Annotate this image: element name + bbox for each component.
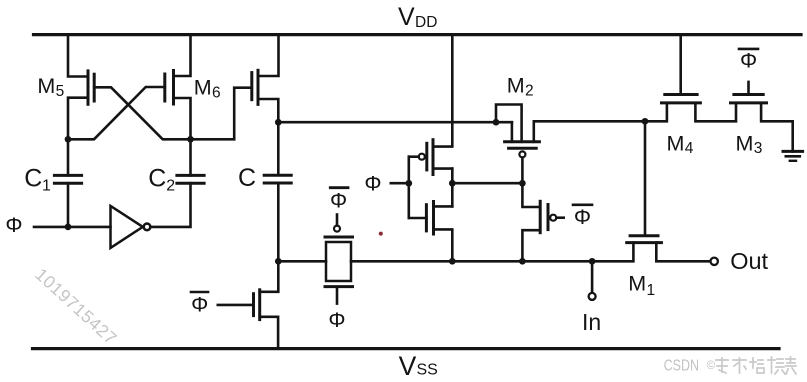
wire M7 gate to node B <box>191 88 252 140</box>
wire M3 gate lead <box>747 82 750 95</box>
label VSS <box>399 351 438 381</box>
transistor M7 (charging device) <box>252 70 258 104</box>
power rail VSS <box>33 347 780 350</box>
svg-text:Φ: Φ <box>328 308 345 332</box>
svg-text:4: 4 <box>685 140 694 157</box>
label Out <box>730 248 768 274</box>
wire VDD to M5 drain <box>68 34 88 76</box>
capacitor C1 <box>54 175 81 183</box>
svg-text:Φ: Φ <box>330 189 347 213</box>
svg-text:1: 1 <box>42 178 51 195</box>
label PHI (TG bottom) <box>328 308 345 332</box>
wire inverter output to C2 <box>150 183 190 227</box>
svg-text:Φ: Φ <box>740 48 757 72</box>
label M1 <box>628 272 655 300</box>
terminal In <box>589 293 596 300</box>
watermark CSDN <box>664 357 716 374</box>
wire M2 gate to node G <box>521 158 524 184</box>
label VDD <box>398 3 437 31</box>
capacitor C <box>264 175 291 183</box>
wire node A to C1 <box>67 139 70 175</box>
svg-text:M: M <box>628 272 646 296</box>
label M2 <box>507 74 534 100</box>
svg-text:CSDN: CSDN <box>664 357 700 374</box>
wire M5 source to node A <box>68 98 88 140</box>
node M2 drain <box>493 119 500 126</box>
wire Q-discharge source to node S2 <box>522 230 540 261</box>
transmission gate TG <box>325 215 353 304</box>
watermark 1019715427 <box>31 264 121 348</box>
svg-text:C: C <box>24 165 42 193</box>
transistor M6 <box>165 71 174 105</box>
wire VDD to M7 drain <box>258 34 279 76</box>
label C2 <box>148 165 175 195</box>
wire M5 gate cross-coupled to node B <box>94 87 190 139</box>
wire bottom bus left (node C-bot to TG) <box>278 260 326 263</box>
svg-text:6: 6 <box>212 84 221 101</box>
label In <box>582 309 601 335</box>
svg-text:M: M <box>736 131 754 155</box>
transistor U2 NMOS <box>426 202 433 235</box>
wire PHI to inverter pair input <box>391 182 409 185</box>
wire M2 body strap <box>496 105 522 142</box>
wire Q-reset source to VSS <box>260 317 278 348</box>
wire M2 source to node D <box>534 121 645 142</box>
node S2 <box>519 258 526 265</box>
label PHI-bar (M3) <box>739 48 758 72</box>
wire C1 to node PHI <box>67 183 70 227</box>
wire U2 NMOS drain <box>434 205 453 208</box>
transistor M5 <box>88 71 94 104</box>
wire U2 NMOS source to node S1 <box>434 229 453 261</box>
wire Q-discharge gate lead <box>556 216 563 219</box>
wire node G to Q-discharge drain <box>522 183 540 207</box>
watermark CJK strokes <box>716 357 796 374</box>
wire U2 NMOS gate lead <box>409 217 427 220</box>
wire U2 PMOS drain <box>433 167 452 170</box>
label C1 <box>24 165 51 195</box>
wire M6 gate cross-coupled to node A <box>68 87 165 139</box>
wire M2 drain lead <box>511 122 514 142</box>
label PHI input <box>5 213 22 237</box>
wire M1 source <box>592 243 633 262</box>
svg-text:Φ: Φ <box>574 205 591 229</box>
svg-text:Φ: Φ <box>364 171 381 195</box>
wire In lead <box>591 261 594 293</box>
svg-text:3: 3 <box>754 140 763 157</box>
label C <box>238 164 256 192</box>
transistor U2 PMOS <box>419 140 433 175</box>
wire M3 source to ground <box>761 103 793 151</box>
wire inverter out to node G <box>452 182 522 185</box>
wire M7 source to node C-top <box>258 99 278 122</box>
wire VDD to M6 drain <box>174 34 191 76</box>
svg-text:2: 2 <box>166 178 175 195</box>
svg-text:M: M <box>194 76 212 100</box>
wire bootstrap top rail (node C-top to M2 drain) <box>278 121 512 124</box>
wire node B to C2 <box>189 139 192 175</box>
svg-text:1: 1 <box>647 282 656 299</box>
label PHI (logic input) <box>364 171 381 195</box>
power rail VDD <box>34 33 802 36</box>
node inverter out <box>449 180 456 187</box>
wire M4 drain to node D <box>645 103 667 121</box>
node C-top <box>275 119 282 126</box>
node A <box>65 136 72 143</box>
node S1 <box>449 258 456 265</box>
terminal Out <box>711 258 718 265</box>
red dot mark <box>379 232 383 236</box>
transistor Q-discharge PMOS <box>540 201 556 232</box>
label PHI-bar (Q-discharge) <box>573 205 592 229</box>
node B <box>187 136 194 143</box>
svg-text:In: In <box>582 309 601 335</box>
svg-text:Φ: Φ <box>191 293 208 317</box>
wire VDD to U2 PMOS source <box>433 34 452 146</box>
svg-text:M: M <box>507 74 525 98</box>
wire U2 PMOS gate lead <box>409 155 419 158</box>
inverter U1 <box>111 206 151 248</box>
svg-text:©: © <box>707 360 716 372</box>
svg-text:C: C <box>148 165 166 193</box>
svg-text:DD: DD <box>415 14 437 31</box>
wire M6 source to node B <box>174 98 191 139</box>
label M3 <box>736 131 763 157</box>
node G <box>519 180 526 187</box>
node D <box>642 118 649 125</box>
svg-text:5: 5 <box>56 83 65 100</box>
wire M1 drain to Out <box>656 243 710 262</box>
wire node C-bot to Q-reset drain <box>260 261 279 292</box>
svg-text:Out: Out <box>730 248 768 274</box>
wire PHI input <box>34 226 111 229</box>
svg-text:C: C <box>238 164 256 192</box>
svg-text:Φ: Φ <box>5 213 22 237</box>
transistor M3 <box>731 95 767 103</box>
wire M4 source to M3 drain <box>695 103 736 121</box>
capacitor C2 <box>177 175 204 183</box>
node IN <box>589 258 596 265</box>
label M6 <box>194 76 221 102</box>
label M5 <box>37 74 64 100</box>
wire node C-top to C <box>277 122 280 175</box>
transistor Q-reset NMOS <box>254 290 260 320</box>
svg-text:M: M <box>667 131 685 155</box>
wire bottom bus right (TG to M1 source) <box>351 260 592 263</box>
wire C to node C-bot <box>277 183 280 261</box>
transistor M4 <box>662 95 701 103</box>
svg-text:1019715427: 1019715427 <box>31 264 121 348</box>
ground <box>783 151 803 160</box>
svg-text:M: M <box>37 74 55 98</box>
wire Q-reset gate lead <box>218 304 254 307</box>
svg-text:V: V <box>399 351 417 381</box>
node C-bot <box>275 258 282 265</box>
label PHI-bar (TG top) <box>330 188 348 213</box>
wire U2 drain column <box>451 169 454 207</box>
label M4 <box>667 131 694 157</box>
transistor M1 <box>627 236 662 243</box>
node PHI <box>65 224 72 231</box>
node logic input <box>405 180 412 187</box>
label PHI-bar (Q-reset) <box>191 292 208 317</box>
svg-text:2: 2 <box>525 82 534 99</box>
wire VDD to M4 gate <box>679 34 682 94</box>
wire node D to M1 gate <box>644 121 647 235</box>
svg-text:SS: SS <box>417 362 438 379</box>
transistor M2 <box>505 142 540 158</box>
svg-text:V: V <box>398 3 415 31</box>
wire gate column of inverter pair <box>407 157 410 218</box>
